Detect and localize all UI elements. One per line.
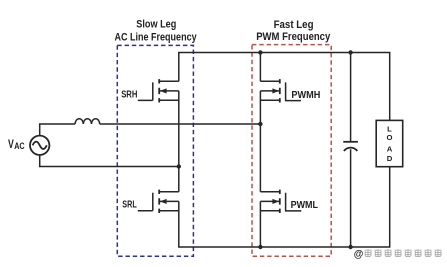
svg-text:D: D <box>387 154 393 163</box>
load box <box>376 120 403 166</box>
svg-text:AC: AC <box>14 141 25 151</box>
inductor L1 <box>75 119 100 124</box>
wire: capacitor branch from top rail <box>350 53 352 142</box>
svg-text:Fast Leg: Fast Leg <box>274 19 314 31</box>
wire: AC bottom wire to slow-leg switch node <box>40 155 179 167</box>
fast leg dashed box <box>252 45 331 257</box>
svg-text:AC Line Frequency: AC Line Frequency <box>115 31 198 43</box>
svg-text:PWMH: PWMH <box>291 90 320 101</box>
wire: top rail <box>179 53 390 121</box>
watermark: juejin community <box>354 249 442 260</box>
transistor SRH <box>138 79 179 102</box>
wire: capacitor branch to bottom rail <box>350 149 352 247</box>
wire: bottom rail <box>179 167 390 247</box>
wire: slow-leg switch node to SRL drain <box>178 167 180 192</box>
wire: AC top wire to inductor <box>40 124 75 136</box>
svg-text:A: A <box>387 144 393 153</box>
slow leg dashed box <box>117 45 193 256</box>
junction dot: fast leg / top rail <box>258 50 262 54</box>
junction dot: fast leg switch node <box>258 122 262 126</box>
svg-text:SRH: SRH <box>121 90 137 101</box>
junction dot: capacitor / bottom rail <box>348 245 352 249</box>
transistor PWML <box>260 190 301 213</box>
svg-text:Slow Leg: Slow Leg <box>136 18 176 30</box>
wire: fast-leg drain riser <box>259 53 261 82</box>
transistor PWMH <box>260 79 301 102</box>
wire: fast-leg mid vertical (PWMH source to PWML drain) <box>259 91 261 192</box>
wire: slow-leg mid vertical (SRH source to switch node) <box>178 91 180 167</box>
svg-text:PWM Frequency: PWM Frequency <box>256 31 331 43</box>
junction dot: slow leg switch node <box>177 164 181 168</box>
wire: inductor to fast-leg switch node <box>100 123 261 125</box>
junction dot: capacitor / top rail <box>348 50 352 54</box>
transistor SRL <box>138 190 179 213</box>
junction dot: fast leg / bottom rail <box>258 245 262 249</box>
svg-text:SRL: SRL <box>122 200 137 211</box>
capacitor C1 <box>343 142 358 151</box>
svg-text:PWML: PWML <box>291 200 319 211</box>
svg-text:O: O <box>387 133 393 142</box>
wire: fast-leg PWML source to bottom rail <box>259 201 261 247</box>
svg-text:@: @ <box>354 249 364 260</box>
ac source VAC <box>30 136 49 155</box>
